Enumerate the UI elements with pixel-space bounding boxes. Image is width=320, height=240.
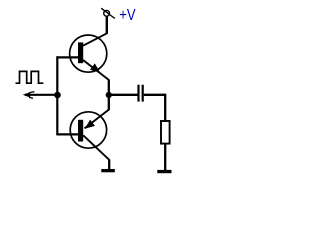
wire node down to Q2 emitter	[108, 95, 110, 110]
transistor Q1 collector lead	[83, 33, 107, 46]
wire capacitor to resistor	[144, 95, 165, 121]
input arrowhead barb bottom	[29, 97, 33, 98]
wire terminal to Q1 collector	[106, 16, 108, 33]
input arrowhead barb top	[30, 92, 35, 93]
transistor Q2 base bar	[78, 120, 83, 142]
transistor Q1 emitter arrow	[90, 63, 100, 72]
transistor Q1 emitter lead	[83, 60, 109, 80]
wire Q1 emitter to node	[108, 80, 110, 96]
transistor Q2 emitter lead	[85, 110, 109, 129]
input wire	[25, 94, 58, 96]
wire node to capacitor	[109, 94, 138, 96]
ground left	[101, 169, 115, 172]
wire Q2 collector to ground	[108, 159, 110, 169]
wire Q1 base	[57, 56, 78, 58]
wire base rail vertical	[56, 56, 58, 135]
power terminal slash	[101, 8, 115, 18]
transistor Q2 emitter arrow	[85, 120, 95, 129]
power terminal +V circle	[104, 10, 110, 16]
resistor R1	[161, 121, 170, 144]
node output junction dot	[106, 92, 112, 98]
ground right	[157, 170, 171, 173]
transistor Q2 circle	[70, 112, 106, 148]
input junction dot	[54, 92, 61, 99]
transistor Q1 circle	[70, 35, 107, 72]
svg-text:+V: +V	[119, 7, 136, 24]
wire resistor to ground	[164, 144, 166, 170]
transistor Q1 base bar	[78, 42, 83, 63]
input arrowhead	[23, 92, 31, 97]
capacitor C1 right plate	[142, 85, 144, 102]
transistor Q2 collector lead	[83, 135, 109, 160]
capacitor C1 left plate	[137, 85, 139, 102]
wire Q2 base	[57, 133, 78, 135]
input square wave symbol	[16, 71, 44, 83]
